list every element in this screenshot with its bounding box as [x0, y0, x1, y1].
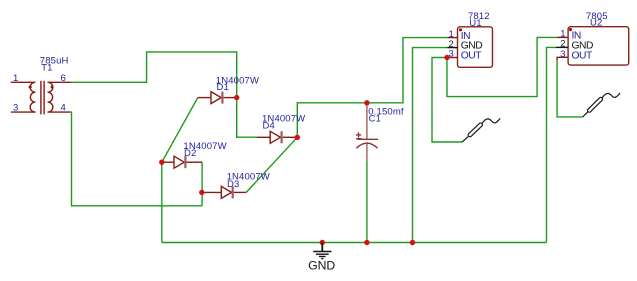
svg-text:OUT: OUT [572, 50, 594, 61]
wire D2 cathode down past D3 anode [201, 162, 203, 206]
svg-text:U2: U2 [590, 18, 602, 29]
regulator U2 [568, 27, 629, 65]
junction dot D2 anode [159, 160, 164, 165]
wire D1 cathode down to D4 anode [237, 98, 257, 138]
wire D4 cathode up to C1 rail [297, 38, 447, 138]
svg-text:D3: D3 [227, 179, 239, 190]
diode D1 [198, 92, 237, 104]
junction dot C1 bottom [364, 240, 369, 245]
svg-text:3: 3 [13, 103, 18, 114]
svg-text:1: 1 [13, 73, 18, 84]
wire diagonal D1 anode to D2 anode [162, 98, 198, 163]
probe 1 (U1 output) [462, 118, 500, 142]
svg-text:OUT: OUT [461, 51, 483, 62]
wire bottom rail [162, 242, 547, 244]
probe 2 (U2 output) [583, 93, 621, 117]
svg-text:U1: U1 [469, 18, 481, 29]
wire U2 pin3 down to probe [557, 59, 583, 117]
svg-text:D1: D1 [217, 82, 229, 93]
wire pin6 to corner [71, 52, 237, 98]
diode D4 [257, 131, 297, 143]
wire T1 pin4 down and right [71, 112, 202, 206]
wire C1 bottom lead to rail [366, 161, 368, 243]
capacitor C1 [366, 103, 368, 161]
svg-text:D2: D2 [184, 148, 196, 159]
junction dot D1 cathode [234, 95, 239, 100]
transformer T1 [11, 81, 71, 115]
svg-text:T1: T1 [41, 62, 52, 73]
svg-text:GND: GND [308, 258, 335, 272]
regulator U1 [458, 27, 493, 68]
diode D2 [162, 156, 202, 168]
junction dot U1 pin2 rail [410, 240, 415, 245]
diode D3 [202, 186, 246, 198]
wire D2 anode down to bottom rail [161, 162, 163, 242]
svg-text:D4: D4 [263, 120, 275, 131]
svg-text:6: 6 [61, 73, 66, 84]
junction dot D3 anode [199, 190, 204, 195]
junction dot D4 cathode [295, 135, 300, 140]
svg-text:C1: C1 [369, 113, 381, 124]
junction dot GND tap [320, 240, 325, 245]
ground symbol [313, 243, 331, 259]
wire diagonal D3 cathode to D4 cathode [246, 137, 297, 192]
wire U2 pin2 down to bottom rail [547, 47, 557, 242]
wire U1 pin2 to bottom rail [413, 48, 448, 243]
svg-text:3: 3 [560, 49, 565, 60]
svg-text:4: 4 [61, 103, 66, 114]
wire U1 pin3 left to probe [432, 58, 462, 143]
junction dot C1 top [364, 100, 369, 105]
wire U1 pin3 down right to U2 pin1 [447, 37, 557, 96]
junction dot U1 pin3 [444, 55, 449, 60]
